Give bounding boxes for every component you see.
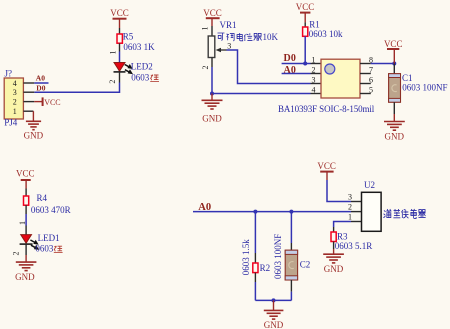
value 0603 红 (red) — [131, 72, 159, 82]
ground GND (VR1) — [202, 94, 223, 124]
svg-text:D0: D0 — [284, 53, 297, 64]
ground GND (C1) — [384, 102, 405, 141]
svg-text:R2: R2 — [260, 263, 271, 273]
svg-text:GND: GND — [202, 113, 222, 123]
svg-text:VCC: VCC — [296, 2, 315, 12]
power VCC (above R1) — [296, 2, 315, 27]
ground GND (PJ4.1) — [24, 111, 44, 140]
junction node (VR1.2 / U1.4 / GND) — [210, 92, 214, 96]
pin 8 of U1 — [360, 55, 373, 64]
power VCC (above R5) — [110, 8, 129, 28]
svg-text:GND: GND — [24, 131, 44, 141]
svg-text:PJ4: PJ4 — [4, 117, 18, 127]
wire R2 to bottom rail — [254, 273, 256, 301]
pin 2 of PJ4 — [13, 98, 35, 107]
wire junction to U1 pin 4 — [212, 93, 311, 95]
wire C2 to bottom rail — [290, 280, 292, 300]
LED2 emission arrows — [125, 65, 132, 74]
svg-text:0603 1K: 0603 1K — [123, 42, 155, 52]
svg-text:VCC: VCC — [203, 8, 222, 18]
svg-text:VCC: VCC — [317, 161, 336, 171]
power VCC (above VR1) — [203, 8, 222, 26]
LED LED1 — [20, 235, 33, 245]
wire VR1.2 to GND junction — [211, 67, 213, 94]
ground GND (LED1) — [15, 244, 36, 282]
wire VR1 wiper to U1 pin 3 — [227, 50, 311, 84]
pin 2 of U2 — [348, 202, 362, 211]
svg-text:VCC: VCC — [384, 39, 403, 49]
svg-text:R5: R5 — [123, 32, 134, 42]
LED LED2 — [114, 63, 126, 72]
capacitor C2 — [285, 250, 297, 280]
svg-text:0603: 0603 — [131, 72, 150, 82]
pin wire VCC node to C1 — [393, 64, 395, 75]
junction node (U1.8 / VCC / C1) — [392, 62, 396, 66]
svg-text:LED2: LED2 — [131, 62, 153, 72]
resistor R1 — [303, 27, 308, 36]
pin 1 of PJ4 — [13, 107, 34, 116]
svg-text:4: 4 — [13, 79, 17, 88]
svg-text:0603 100NF: 0603 100NF — [402, 83, 447, 93]
resistor R3 — [331, 232, 336, 242]
svg-text:0603 5.1R: 0603 5.1R — [335, 241, 373, 251]
wire R1 to D0 node — [304, 36, 306, 63]
ground GND (R3) — [323, 242, 344, 275]
pin 4 of U1 — [311, 85, 322, 94]
svg-text:BA10393F SOIC-8-150mil: BA10393F SOIC-8-150mil — [278, 104, 375, 114]
SECTION: top-right comparator — [278, 2, 448, 142]
svg-text:2: 2 — [12, 252, 21, 256]
svg-text:3: 3 — [348, 192, 352, 201]
junction node (A0 / C2) — [289, 210, 293, 214]
power VCC (above C1) — [384, 39, 403, 63]
svg-text:0603 470R: 0603 470R — [31, 205, 71, 215]
wire A0 node to R2 — [254, 212, 256, 263]
pin 3 of U1 — [311, 75, 322, 84]
svg-text:J?: J? — [5, 68, 13, 78]
pin 1 of VR1 — [201, 26, 213, 36]
svg-text:U2: U2 — [364, 180, 375, 190]
resistor R4 — [24, 196, 29, 205]
wire VCC to U2 pin 3 — [327, 180, 351, 202]
power VCC (above R4) — [16, 169, 35, 189]
value 可调电位器10K — [218, 33, 262, 41]
resistor R5 — [117, 34, 122, 43]
junction node (bottom rail / GND) — [272, 298, 276, 302]
wire U2.1 to R3 — [334, 222, 351, 233]
svg-text:VCC: VCC — [44, 98, 60, 107]
resistor R2 — [253, 263, 258, 273]
power VCC (PJ4.2) — [34, 97, 60, 106]
sensor U2 body — [362, 192, 382, 231]
pin 4 of PJ4 — [13, 79, 35, 88]
svg-text:0603: 0603 — [35, 244, 54, 254]
svg-text:VCC: VCC — [16, 169, 35, 179]
pin 1 of U1 — [311, 55, 322, 64]
pin 7 of U1 — [360, 65, 373, 74]
net label A0 (PJ4.4) — [34, 74, 48, 83]
pin 3 (wiper) of VR1 — [216, 42, 232, 53]
wire A0 to U2 pin 2 — [193, 211, 351, 213]
net label D0 (U1.1) — [282, 53, 311, 64]
svg-text:2: 2 — [13, 98, 17, 107]
svg-text:GND: GND — [385, 131, 405, 141]
pin wire to R4 — [25, 189, 27, 197]
svg-text:R1: R1 — [309, 20, 320, 30]
U1 pin-1 marker circle — [325, 64, 335, 74]
svg-text:1: 1 — [348, 212, 352, 221]
svg-text:LED1: LED1 — [38, 233, 60, 243]
pin 3 of PJ4 — [13, 88, 35, 97]
SECTION: top-left LED indicator — [4, 8, 159, 141]
svg-text:2: 2 — [108, 80, 117, 84]
potentiometer VR1 body — [208, 36, 215, 58]
svg-text:2: 2 — [201, 66, 210, 70]
svg-text:0603 100NF: 0603 100NF — [273, 234, 283, 279]
svg-text:A0: A0 — [36, 74, 45, 83]
SECTION: top-middle potentiometer — [201, 8, 311, 124]
net label A0 (U1.2) — [282, 65, 311, 76]
pin 2 of VR1 — [201, 58, 212, 70]
ground GND (R2/C2) — [264, 300, 284, 329]
SECTION: bottom-left LED — [12, 169, 71, 283]
svg-text:VCC: VCC — [110, 8, 129, 18]
pin 5 of U1 — [360, 85, 373, 94]
SECTION: bottom-right sensor — [193, 161, 426, 329]
wire bottom rail (R2 to C2) — [255, 299, 291, 301]
svg-text:1: 1 — [109, 51, 118, 55]
pin 3 of U2 — [348, 192, 362, 201]
pin 1 of U2 — [348, 212, 362, 221]
value 酒精传感器 — [383, 209, 425, 218]
svg-text:D0: D0 — [36, 83, 45, 92]
svg-text:1: 1 — [13, 107, 17, 116]
svg-text:3: 3 — [13, 88, 17, 97]
svg-text:0603 1.5k: 0603 1.5k — [241, 239, 251, 276]
value 0603 红 (red) — [35, 244, 62, 254]
wire R4 to LED1 — [25, 205, 27, 234]
junction node (R1 / U1.1 / D0) — [303, 62, 307, 66]
svg-text:R4: R4 — [37, 193, 48, 203]
pin 6 of U1 — [360, 75, 373, 84]
svg-text:VR1: VR1 — [220, 20, 237, 30]
wire R5 to LED2 — [119, 43, 121, 62]
svg-text:GND: GND — [264, 320, 284, 329]
svg-text:0603 10k: 0603 10k — [309, 29, 343, 39]
pin 1 of R5 (top pin wire) — [119, 28, 121, 34]
wire U1.8 to VCC node — [371, 63, 395, 65]
junction node (A0 / R2) — [253, 210, 257, 214]
pin 2 of U1 — [311, 65, 322, 74]
wire LED2 to D0 net — [34, 72, 119, 92]
LED1 emission arrows — [30, 240, 37, 249]
connector PJ4 body — [4, 78, 23, 119]
capacitor C1 — [389, 74, 401, 103]
power VCC (above U2) — [317, 161, 336, 180]
comparator U1 body (BA10393F) — [321, 59, 360, 98]
svg-text:C2: C2 — [300, 259, 311, 269]
svg-text:1: 1 — [201, 27, 210, 31]
svg-text:GND: GND — [324, 264, 344, 274]
svg-text:GND: GND — [15, 272, 35, 282]
svg-text:2: 2 — [348, 202, 352, 211]
svg-text:10K: 10K — [263, 32, 279, 42]
wire A0 node to C2 — [290, 212, 292, 251]
